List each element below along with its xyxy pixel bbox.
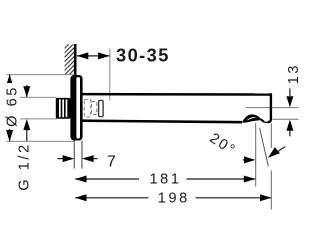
escutcheon flange	[70, 75, 82, 141]
dimension 198 line right segment	[196, 197, 272, 199]
dimension 7 left arrow	[63, 155, 75, 162]
spout outlet underside to tip	[264, 121, 270, 123]
dimension 198 left arrow	[75, 194, 87, 201]
svg-text:7: 7	[107, 153, 116, 170]
spout body bottom edge	[82, 121, 242, 123]
angle 20 left arrow tail	[243, 159, 246, 161]
dimension 7 right arrow	[82, 155, 94, 162]
dimension G1/2 up arrow	[23, 119, 30, 130]
dimension 7 right extension line	[81, 141, 83, 169]
dimension 13 lower extension line	[273, 118, 299, 120]
dimension G1/2 down arrow	[23, 86, 30, 97]
angle 20 tilted line	[260, 128, 269, 166]
svg-text:181: 181	[150, 172, 182, 188]
flange front-face highlight	[76, 77, 80, 139]
cartridge capsule	[99, 100, 104, 116]
dimension G1/2 text	[17, 142, 33, 190]
dimension 7 right tail	[93, 158, 97, 160]
dimension 198 line left segment	[75, 197, 148, 199]
spout outlet lip	[242, 114, 261, 122]
spout outlet lip highlight	[247, 117, 257, 121]
angle 20 leader line	[275, 147, 286, 155]
angle 20 left arrow	[244, 156, 256, 163]
dimension G1/2 bottom extension line	[20, 118, 57, 120]
dimension 30-35 left arrow	[77, 52, 89, 59]
spout body right end	[268, 93, 271, 122]
threaded pipe G1/2	[56, 98, 71, 119]
hidden connector dashed box B	[92, 102, 97, 115]
wall hatch	[62, 37, 76, 82]
svg-text:198: 198	[158, 190, 190, 206]
svg-text:13: 13	[286, 63, 300, 84]
dimension 30-35 line	[77, 55, 110, 57]
dimension O65 down arrow	[6, 130, 13, 142]
dimension O65 up arrow	[6, 74, 13, 86]
dimension G1/2 upper tail	[26, 85, 28, 97]
dimension 30-35 extension line	[109, 49, 111, 101]
dimension O65 bottom extension line	[7, 140, 75, 142]
extension line 198 spout tip	[270, 124, 272, 149]
hidden connector dashed box A	[84, 99, 91, 117]
dimension 198 right arrow	[260, 194, 272, 201]
dimension 7 left tail	[58, 158, 65, 160]
cartridge center stripe	[100, 101, 101, 116]
spout outlet curve	[261, 119, 264, 122]
angle 20 vertical reference line	[255, 123, 257, 187]
dimension 13 down arrow	[286, 96, 293, 107]
dimension 181 line left segment	[75, 178, 139, 180]
svg-text:30-35: 30-35	[116, 45, 170, 66]
svg-text:G 1/2: G 1/2	[17, 142, 33, 190]
spout body top edge	[82, 93, 271, 96]
dimension 181 line right segment	[187, 178, 256, 180]
dimension 13 upper tail	[289, 89, 291, 97]
dimension 13 upper extension line	[246, 107, 299, 109]
dimension O65 top extension line	[7, 74, 75, 76]
angle 20 right arrow	[268, 147, 280, 158]
angle 20 text	[207, 130, 239, 159]
dimension 30-35 right arrow	[98, 52, 110, 59]
wall line	[74, 44, 77, 76]
dimension 181 right arrow	[244, 176, 256, 183]
dimension 7 left extension line	[73, 141, 75, 169]
dimension G1/2 lower tail	[26, 130, 28, 142]
dimension 13 text	[286, 63, 302, 84]
dimension O65 text	[4, 83, 21, 129]
dimension G1/2 top extension line	[20, 96, 57, 98]
dimension 13 up arrow	[286, 120, 293, 131]
svg-text:Ø 65: Ø 65	[5, 85, 21, 127]
dimension O65 line	[9, 75, 11, 142]
dimension 181 left arrow	[75, 176, 87, 183]
dimension 13 lower tail	[289, 130, 291, 136]
